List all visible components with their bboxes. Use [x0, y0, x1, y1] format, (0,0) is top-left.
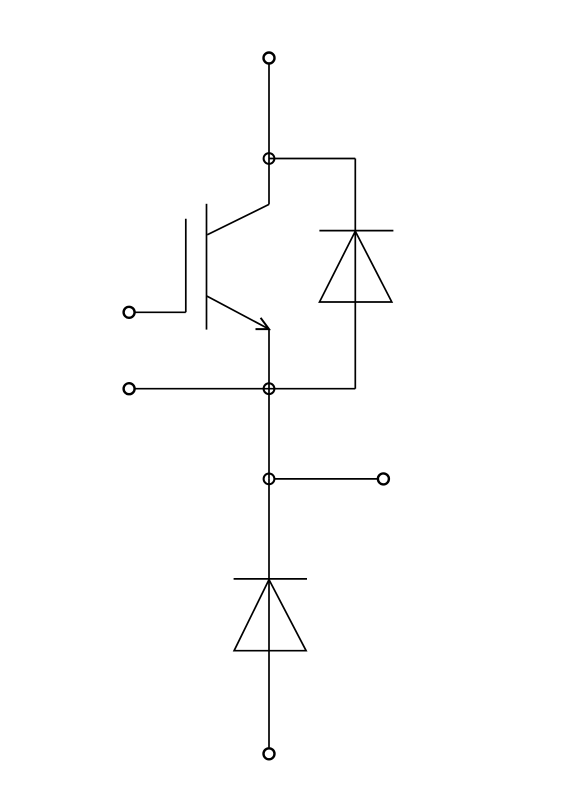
diode D2 cathode bar [234, 578, 307, 580]
wire emitter to node N2 [268, 329, 270, 389]
igbt Q1 body bar [206, 204, 208, 330]
node N2 (emitter / phase rail junction) [264, 383, 275, 394]
diode D1 cathode bar [319, 230, 393, 232]
igbt Q1 emitter arrowhead [256, 318, 270, 329]
igbt Q1 gate wire [135, 311, 186, 313]
igbt Q1 gate bar [185, 219, 187, 313]
terminal T2 (left rail) [124, 383, 135, 394]
diode D2 triangle [234, 580, 306, 651]
wire node N1 to diode D1 branch [269, 158, 355, 160]
wire node N3 to terminal T4 [275, 478, 378, 480]
node N1 (collector junction) [264, 153, 275, 164]
diode D1 triangle [320, 231, 392, 302]
wire rail T2 to D1 branch (through node N2) [135, 388, 356, 390]
node N3 (midpoint junction) [264, 474, 275, 485]
wire diode D2 to terminal T5 [268, 580, 270, 747]
terminal T1 (top) [264, 53, 275, 64]
wire node N3 to diode D2 [268, 479, 270, 580]
igbt Q1 collector lead (diagonal) [207, 204, 269, 234]
terminal T3 (gate) [124, 307, 135, 318]
terminal T5 (bottom) [264, 748, 275, 759]
igbt Q1 emitter lead (diagonal) [207, 296, 270, 329]
wire node N2 to node N3 [268, 389, 270, 479]
wire T1 to node N1 to collector bend [268, 64, 270, 204]
terminal T4 (right mid) [378, 473, 389, 484]
wire diode D1 branch vertical [354, 159, 356, 389]
